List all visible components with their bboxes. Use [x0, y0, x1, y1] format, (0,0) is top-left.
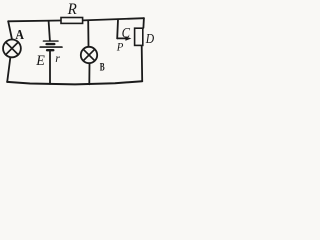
label P	[116, 42, 124, 54]
label E	[35, 53, 45, 69]
label A	[15, 28, 24, 43]
battery E cell 1 short thick plate	[47, 43, 55, 45]
wire lamp B branch bottom	[88, 64, 90, 85]
svg-text:A: A	[15, 28, 24, 43]
battery E cell 2 long plate	[40, 46, 62, 48]
battery E cell 2 short thick plate	[47, 49, 53, 51]
svg-text:B: B	[100, 60, 105, 74]
lamp A cross	[6, 42, 19, 55]
svg-text:D: D	[145, 32, 154, 47]
wire left side upper (corner down to lamp A)	[8, 21, 12, 39]
wire bottom (bottom-left to bottom-right corner)	[7, 81, 142, 84]
wire slider branch horizontal	[117, 37, 126, 39]
battery E cell 1 long plate	[43, 40, 58, 42]
svg-text:r: r	[55, 51, 60, 65]
label B	[100, 60, 105, 74]
rheostat D box	[135, 28, 143, 45]
resistor R	[61, 18, 83, 24]
svg-text:C: C	[122, 25, 131, 41]
wire lamp B branch top	[87, 21, 89, 46]
label C	[122, 25, 131, 41]
wire top-left (top-left corner to resistor R)	[8, 20, 60, 23]
label r	[55, 51, 60, 65]
lamp A circle	[3, 40, 21, 58]
wire right side upper (top-right corner to rheostat D)	[142, 18, 145, 28]
wire right side lower (rheostat D to bottom-right corner)	[141, 46, 144, 81]
label D	[145, 32, 154, 47]
lamp B cross	[83, 49, 94, 60]
svg-text:R: R	[67, 1, 77, 18]
slider arrow P arrowhead	[125, 36, 131, 41]
svg-text:P: P	[116, 42, 124, 54]
label R	[67, 1, 77, 18]
svg-text:E: E	[35, 53, 45, 69]
lamp B circle	[81, 47, 97, 63]
wire slider branch vertical	[116, 20, 119, 39]
wire top-right (resistor R to top-right corner)	[83, 18, 144, 20]
wire battery branch top	[49, 21, 50, 41]
wire battery branch bottom	[49, 51, 51, 84]
wire left side lower (lamp A down to bottom-left corner)	[7, 58, 10, 82]
